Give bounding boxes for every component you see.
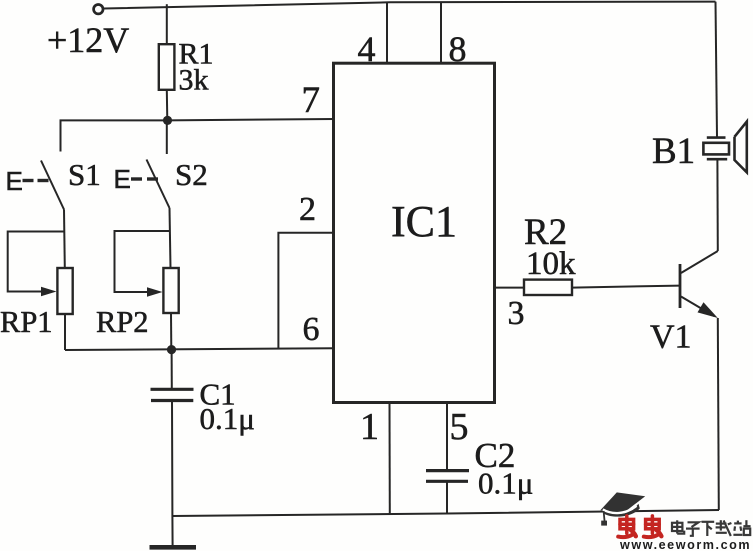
node B junction: [167, 345, 176, 354]
wire node B to C1: [171, 350, 173, 389]
zai: [716, 522, 727, 524]
wire emitter down to bus: [718, 318, 719, 510]
transistor V1 collector: [681, 251, 718, 273]
capacitor C2: [426, 469, 469, 472]
potentiometer RP1 body: [57, 268, 72, 314]
arrow RP1 wiper: [41, 287, 57, 297]
svg-text:E: E: [114, 164, 131, 194]
svg-text:4: 4: [358, 29, 376, 69]
zi: [688, 522, 699, 527]
resistor R2: [524, 280, 572, 295]
svg-text:V1: V1: [650, 319, 692, 356]
wire RP1 bottom: [64, 314, 66, 350]
arrow V1 emitter: [698, 302, 718, 318]
power terminal +12V: [94, 5, 103, 14]
svg-text:8: 8: [449, 29, 467, 69]
transistor V1 base bar: [679, 264, 682, 308]
svg-text:S1: S1: [68, 157, 101, 192]
wire node A left branch to S1: [61, 120, 168, 151]
wire R2 to V1 base: [572, 286, 680, 288]
arrow RP2 wiper: [147, 287, 163, 297]
wire R1 top: [166, 4, 168, 44]
transistor V1 emitter: [681, 297, 714, 317]
wire pin 8: [440, 2, 442, 63]
resistor R1: [159, 44, 175, 90]
speaker B1: [703, 122, 746, 173]
wire bottom ground bus: [172, 510, 719, 516]
wire pin 3: [495, 287, 524, 289]
node A junction: [163, 116, 172, 125]
switch S1 blade: [41, 161, 64, 210]
potentiometer RP2 body: [163, 268, 178, 313]
dian: [672, 523, 682, 531]
svg-text:0.1μ: 0.1μ: [200, 401, 255, 436]
IC1 body: [334, 63, 495, 402]
wire pin 4: [386, 2, 388, 63]
wire right supply drop to B1: [716, 2, 718, 137]
capacitor C1: [151, 388, 194, 391]
switch S2 blade: [147, 160, 170, 209]
wire R1 bottom to node A: [166, 90, 169, 121]
xia: [702, 521, 715, 523]
wire top supply bus: [104, 2, 716, 9]
wire S2 bottom: [170, 208, 171, 268]
svg-text:+12V: +12V: [47, 20, 129, 60]
wire collector up to B1: [716, 160, 718, 251]
svg-text:E: E: [6, 166, 23, 196]
zhan: [734, 522, 741, 524]
svg-text:3k: 3k: [179, 64, 209, 97]
svg-text:2: 2: [299, 191, 316, 228]
wire S1 bottom: [63, 210, 66, 269]
wire RP1 wiper loop: [8, 232, 64, 292]
svg-text:B1: B1: [652, 131, 695, 172]
wire C1 bottom to ground: [171, 401, 174, 546]
svg-text:1: 1: [360, 406, 379, 448]
svg-text:0.1μ: 0.1μ: [478, 466, 533, 501]
wire bus to pin 6: [65, 348, 335, 350]
watermark red chong chong characters: [618, 516, 661, 537]
svg-text:RP1: RP1: [0, 305, 53, 339]
wire RP2 wiper loop: [115, 231, 171, 292]
ground: [150, 545, 197, 550]
svg-text:IC1: IC1: [391, 197, 457, 246]
svg-text:S2: S2: [175, 157, 208, 192]
watermark graduation cap: [600, 492, 645, 525]
svg-text:10k: 10k: [526, 246, 576, 282]
svg-text:5: 5: [450, 406, 469, 448]
wire node A to pin 7: [168, 119, 335, 120]
wire pin 1: [389, 403, 391, 515]
wire C2 bottom: [446, 481, 448, 513]
wire RP2 bottom: [170, 313, 172, 350]
wire pin 2: [278, 233, 334, 349]
svg-text:6: 6: [303, 311, 320, 348]
watermark dianzi xiazaizhan characters: [672, 520, 751, 536]
wire S2 top: [166, 120, 168, 154]
svg-text:3: 3: [508, 295, 525, 332]
svg-text:7: 7: [302, 80, 321, 121]
wire pin 5: [446, 403, 448, 470]
svg-text:www.eeworm.com: www.eeworm.com: [619, 538, 751, 551]
svg-text:RP2: RP2: [96, 305, 149, 339]
